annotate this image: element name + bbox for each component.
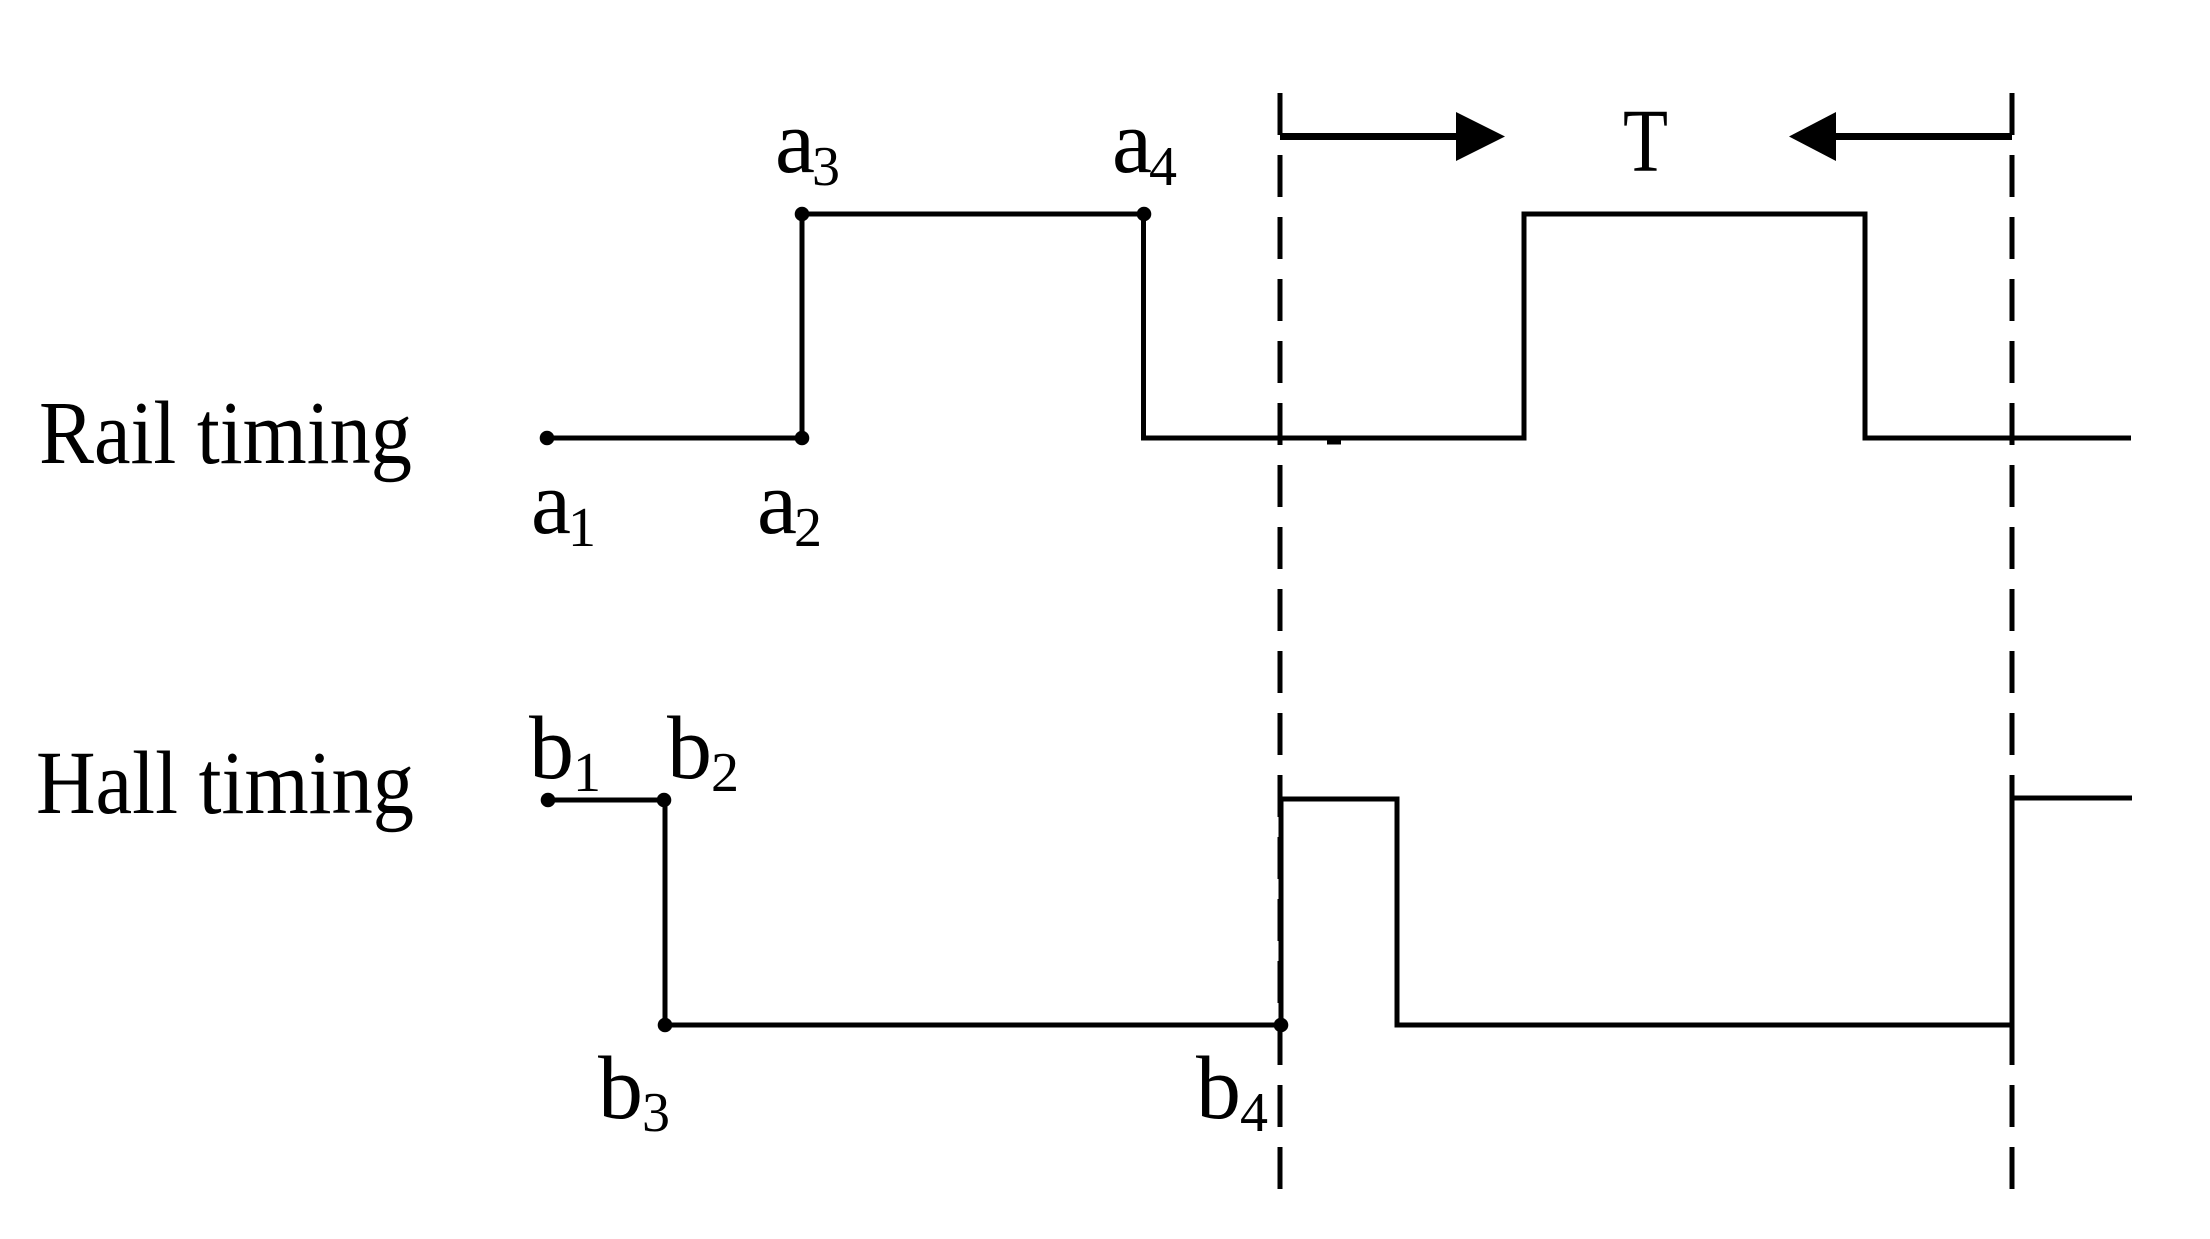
- label a1: [531, 454, 596, 559]
- rail wire falling edge at a4: [1141, 214, 1146, 441]
- svg-text:Hall timing: Hall timing: [36, 734, 414, 833]
- label b2: [667, 699, 739, 804]
- hall wire high segment b1-b2: [548, 798, 665, 803]
- label a2: [757, 454, 822, 559]
- arrow right-pointing: [1280, 112, 1505, 161]
- svg-text:1: 1: [573, 742, 601, 804]
- svg-text:1: 1: [568, 497, 596, 559]
- rail wire high segment second pulse: [1524, 212, 1865, 217]
- hall wire rising edge at b4: [1279, 797, 1284, 1026]
- svg-text:b: b: [667, 699, 712, 798]
- svg-text:3: 3: [812, 136, 840, 198]
- hall wire falling edge b2-b3: [663, 800, 668, 1025]
- svg-text:b: b: [598, 1039, 643, 1138]
- hall wire rising edge at right marker: [2010, 796, 2015, 1026]
- svg-text:a: a: [775, 93, 815, 192]
- hall wire low segment b3-b4: [665, 1023, 1281, 1028]
- node a3: [795, 207, 810, 222]
- node b2: [657, 793, 672, 808]
- label a3: [775, 93, 840, 198]
- dashed period marker line left: [1278, 93, 1283, 1190]
- node a2: [795, 431, 810, 446]
- svg-text:2: 2: [794, 497, 822, 559]
- rail wire rising edge a2-a3: [800, 214, 805, 438]
- wire joint nub: [1327, 436, 1341, 445]
- arrow left-pointing: [1789, 112, 2012, 161]
- svg-text:2: 2: [711, 742, 739, 804]
- svg-text:b: b: [1196, 1039, 1241, 1138]
- rail wire high segment a3-a4: [800, 212, 1147, 217]
- node a4: [1137, 207, 1152, 222]
- svg-text:Rail timing: Rail timing: [39, 384, 412, 483]
- rail wire low segment right: [1865, 436, 2131, 441]
- node a1: [540, 431, 555, 446]
- hall wire falling edge pulse: [1395, 797, 1400, 1028]
- node b1: [541, 793, 556, 808]
- hall wire high segment pulse: [1281, 797, 1397, 802]
- rail wire falling edge second pulse: [1863, 212, 1868, 441]
- svg-text:4: 4: [1240, 1082, 1268, 1144]
- label b4: [1196, 1039, 1268, 1144]
- svg-text:a: a: [757, 454, 797, 553]
- label b3: [598, 1039, 670, 1144]
- dashed period marker line right: [2010, 93, 2015, 1190]
- svg-text:b: b: [529, 699, 574, 798]
- svg-text:a: a: [531, 454, 571, 553]
- rail wire low segment a1-a2: [547, 436, 802, 441]
- svg-text:4: 4: [1149, 136, 1177, 198]
- svg-text:3: 3: [642, 1082, 670, 1144]
- node b3: [658, 1018, 673, 1033]
- label a4: [1112, 93, 1177, 198]
- hall wire high segment right: [2012, 796, 2132, 801]
- hall wire low segment right: [1397, 1023, 2012, 1028]
- svg-text:T: T: [1623, 92, 1668, 191]
- label b1: [529, 699, 601, 804]
- rail wire low segment middle: [1144, 436, 1527, 441]
- rail wire rising edge second pulse: [1522, 212, 1527, 441]
- svg-text:a: a: [1112, 93, 1152, 192]
- node b4: [1274, 1018, 1289, 1033]
